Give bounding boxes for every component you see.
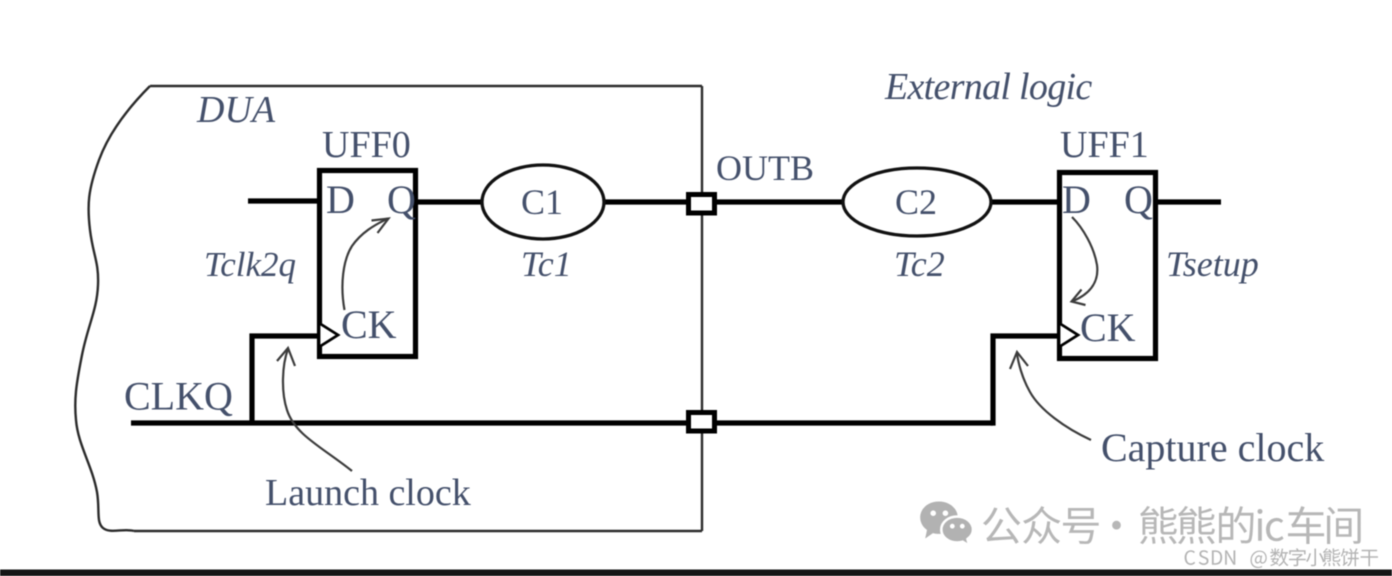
launch clock annotation arrow: [283, 349, 352, 471]
combinational cloud C1: [482, 165, 604, 239]
svg-text:C1: C1: [521, 182, 563, 222]
watermark wechat icon big bubble: [920, 502, 958, 539]
svg-text:D: D: [1062, 177, 1091, 222]
svg-text:CK: CK: [341, 302, 397, 347]
internal arrow UFF1 D to CK: [1072, 217, 1097, 301]
combinational cloud C2: [843, 168, 991, 236]
DUA box top edge: [150, 85, 702, 87]
svg-text:Tsetup: Tsetup: [1166, 244, 1259, 284]
DUA box bottom edge: [134, 530, 702, 532]
capture clock annotation arrow: [1017, 353, 1091, 440]
port square OUTB: [689, 195, 715, 214]
watermark CSDN 数字小熊饼干: [1185, 548, 1378, 568]
wire UFF0 Q to C1: [416, 199, 484, 204]
wire UFF1 Q output: [1156, 199, 1221, 204]
wire C2 to UFF1 D: [989, 199, 1059, 204]
svg-text:Launch clock: Launch clock: [265, 472, 471, 514]
DUA box wavy left edge: [75, 86, 150, 531]
svg-text:CLKQ: CLKQ: [124, 374, 233, 419]
svg-text:Tc2: Tc2: [894, 244, 945, 284]
svg-text:D: D: [326, 177, 355, 222]
internal arrow UFF0 CK to Q: [342, 219, 388, 311]
svg-text:UFF1: UFF1: [1060, 124, 1149, 166]
svg-text:CK: CK: [1080, 305, 1136, 350]
svg-text:Tclk2q: Tclk2q: [204, 245, 296, 284]
clock triangle UFF1: [1059, 323, 1078, 347]
flip-flop UFF0 box: [320, 171, 416, 357]
svg-text:External logic: External logic: [884, 66, 1092, 108]
svg-text:Capture clock: Capture clock: [1101, 425, 1324, 470]
svg-text:Tc1: Tc1: [521, 244, 572, 284]
wire D input UFF0: [248, 198, 319, 203]
svg-text:Q: Q: [1124, 177, 1153, 222]
wire C1 to OUTB port: [602, 199, 690, 204]
wire CLKQ net: [131, 420, 690, 425]
watermark text 公众号 熊熊的ic车间: [983, 506, 1361, 544]
svg-text:UFF0: UFF0: [322, 124, 411, 166]
port square clock: [689, 413, 715, 432]
flip-flop UFF1 box: [1060, 173, 1156, 359]
svg-text:OUTB: OUTB: [716, 148, 814, 188]
wire CLKQ to capture corner: [714, 420, 993, 425]
wire capture clock branch up to UFF1 CK: [991, 336, 1059, 423]
svg-text:C2: C2: [895, 182, 937, 222]
svg-text:DUA: DUA: [196, 89, 276, 131]
watermark wechat icon small bubble: [941, 517, 973, 546]
wire OUTB port to C2: [714, 199, 845, 204]
wire launch clock branch up to UFF0 CK: [252, 336, 319, 425]
svg-text:Q: Q: [387, 177, 416, 222]
clock triangle UFF0: [319, 323, 338, 347]
DUA box right edge: [701, 86, 703, 531]
bottom bar: [0, 570, 1392, 576]
